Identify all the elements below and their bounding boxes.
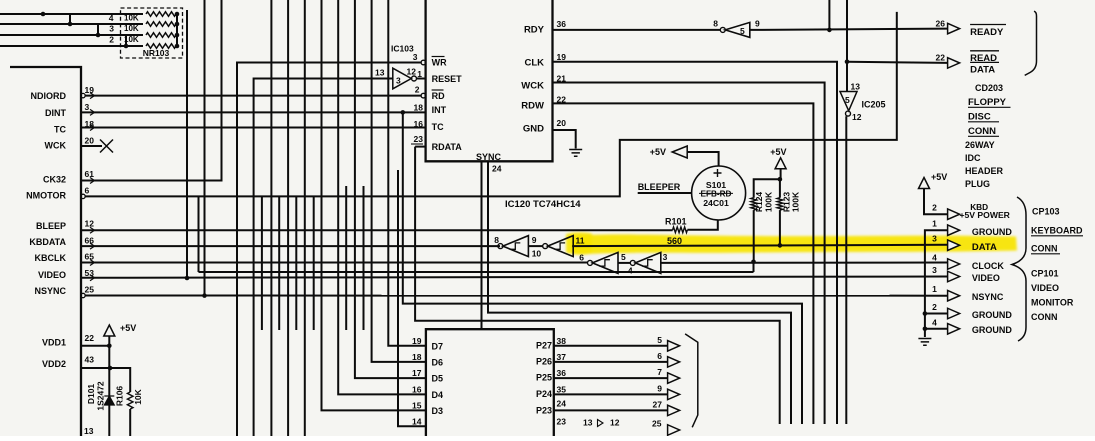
bus vertical K (x314) bbox=[313, 196, 315, 330]
bus vertical to D6 bbox=[372, 0, 426, 362]
bracket CP103 bbox=[1012, 197, 1026, 341]
svg-text:BLEEPER: BLEEPER bbox=[638, 182, 681, 192]
wire READ DATA bbox=[847, 62, 948, 63]
wire +5V down bbox=[780, 169, 782, 179]
svg-text:R106: R106 bbox=[115, 386, 125, 407]
svg-text:+5V: +5V bbox=[650, 147, 666, 157]
svg-text:14: 14 bbox=[412, 416, 422, 426]
op-amp inverter gate 10/11 bbox=[543, 244, 548, 249]
svg-text:7: 7 bbox=[657, 367, 662, 377]
svg-text:24: 24 bbox=[492, 164, 502, 174]
ground symbol kbd/video bbox=[918, 339, 931, 346]
svg-text:CP101: CP101 bbox=[1031, 269, 1059, 279]
svg-text:23: 23 bbox=[557, 417, 567, 427]
bus vertical NMOTOR drop (x198) bbox=[198, 196, 200, 272]
svg-text:R101: R101 bbox=[665, 217, 687, 227]
svg-text:3: 3 bbox=[932, 265, 937, 275]
svg-text:CONN: CONN bbox=[1031, 244, 1058, 254]
svg-text:READY: READY bbox=[970, 27, 1004, 38]
wire VIDEO bbox=[81, 277, 948, 278]
wire WCK drop bbox=[553, 83, 825, 425]
node arrow bottom partial bbox=[668, 425, 680, 436]
svg-text:10K: 10K bbox=[124, 14, 139, 23]
resistor NR103 element d bbox=[146, 44, 176, 49]
wire R123 to DATA net bbox=[779, 210, 781, 245]
wire P27 out bbox=[554, 345, 668, 347]
wire VDD1 bbox=[81, 345, 109, 347]
wire CK32 bbox=[81, 0, 222, 181]
svg-text:12: 12 bbox=[852, 112, 862, 122]
pin arrow VIDEO bbox=[90, 275, 95, 281]
svg-text:6: 6 bbox=[657, 351, 662, 361]
node READ DATA arrow bbox=[948, 58, 960, 69]
bus vertical I (x296) bbox=[295, 196, 297, 330]
riser at x829 bbox=[828, 0, 830, 30]
svg-text:D7: D7 bbox=[432, 341, 444, 351]
bus vertical L (x346) bbox=[345, 186, 347, 330]
svg-text:13: 13 bbox=[375, 68, 385, 78]
pin arrow KBDATA bbox=[90, 243, 95, 249]
svg-text:HEADER: HEADER bbox=[965, 166, 1004, 176]
svg-text:24: 24 bbox=[557, 399, 567, 409]
bracket P2x bbox=[685, 334, 698, 427]
svg-text:10K: 10K bbox=[124, 24, 139, 33]
wire DINT to INT bbox=[81, 111, 426, 113]
svg-text:19: 19 bbox=[85, 85, 95, 95]
svg-text:6: 6 bbox=[579, 253, 584, 263]
svg-text:VDD1: VDD1 bbox=[42, 338, 66, 348]
svg-text:VIDEO: VIDEO bbox=[38, 270, 66, 280]
svg-text:RD: RD bbox=[432, 91, 445, 101]
node READY arrow bbox=[948, 23, 960, 33]
pin arrow CK32 bbox=[90, 178, 95, 184]
junction dot VDD1 bbox=[107, 344, 112, 349]
svg-text:22: 22 bbox=[936, 53, 946, 63]
wire KBDATA (to inverter 8) bbox=[81, 245, 500, 247]
svg-text:20: 20 bbox=[85, 136, 95, 146]
wire R101 to circle bbox=[687, 220, 717, 230]
wire between gates bbox=[528, 245, 542, 247]
node pin3 DATA arrow bbox=[948, 240, 960, 251]
svg-text:3: 3 bbox=[85, 102, 90, 112]
tiny gate 13-12 bbox=[598, 420, 604, 427]
bus vertical to D5 bbox=[355, 0, 426, 378]
wire DATA net bbox=[572, 245, 947, 246]
svg-text:25: 25 bbox=[85, 285, 95, 295]
svg-text:23: 23 bbox=[414, 134, 424, 144]
svg-text:R124: R124 bbox=[754, 192, 764, 213]
svg-text:66: 66 bbox=[85, 236, 95, 246]
svg-text:KEYBOARD: KEYBOARD bbox=[1031, 226, 1083, 236]
svg-text:P24: P24 bbox=[536, 389, 552, 399]
wire BLEEPER underline lead bbox=[638, 192, 692, 194]
svg-text:5: 5 bbox=[657, 335, 662, 345]
svg-text:38: 38 bbox=[557, 336, 567, 346]
svg-text:9: 9 bbox=[755, 19, 760, 29]
svg-text:CD203: CD203 bbox=[975, 83, 1003, 93]
svg-text:IC103: IC103 bbox=[391, 44, 414, 54]
svg-text:3: 3 bbox=[396, 76, 401, 86]
wire WCK stub bbox=[81, 145, 102, 147]
svg-text:GROUND: GROUND bbox=[972, 310, 1012, 320]
svg-text:MONITOR: MONITOR bbox=[1031, 298, 1074, 308]
pin bubble NSYNC bbox=[81, 293, 85, 297]
pin arrow BLEEP bbox=[90, 227, 95, 233]
wire R124 to CLOCK net bbox=[753, 210, 755, 261]
node pin1 arrow bbox=[948, 225, 960, 236]
svg-text:12: 12 bbox=[85, 219, 95, 229]
node arrow P26 bbox=[668, 357, 680, 368]
wire mid horizontal bbox=[199, 271, 754, 273]
svg-text:PLUG: PLUG bbox=[965, 179, 990, 189]
svg-text:13: 13 bbox=[851, 82, 861, 92]
svg-text:10: 10 bbox=[532, 249, 542, 259]
svg-text:IC205: IC205 bbox=[862, 100, 886, 110]
node pin4 CLOCK arrow bbox=[948, 259, 960, 270]
junction dot on line 3 bbox=[96, 33, 101, 38]
svg-text:3: 3 bbox=[932, 234, 937, 244]
op-amp inverter gate 8/9 bbox=[498, 244, 503, 249]
svg-text:D101: D101 bbox=[86, 384, 96, 405]
svg-text:CONN: CONN bbox=[968, 126, 996, 137]
transistor-like gate IC205 inverter bbox=[840, 92, 857, 111]
wire RDATA stub bbox=[415, 146, 426, 148]
svg-text:61: 61 bbox=[85, 169, 95, 179]
node arrow P24 bbox=[668, 389, 680, 400]
wire P24 out bbox=[554, 393, 668, 395]
svg-text:1S2472: 1S2472 bbox=[96, 381, 106, 411]
svg-text:5: 5 bbox=[621, 252, 626, 262]
svg-text:RESET: RESET bbox=[432, 74, 463, 84]
svg-text:DINT: DINT bbox=[45, 108, 66, 118]
svg-text:NSYNC: NSYNC bbox=[34, 286, 66, 296]
node pin4 GROUND arrow bbox=[948, 324, 960, 335]
svg-text:3: 3 bbox=[413, 52, 418, 62]
svg-text:GROUND: GROUND bbox=[972, 227, 1012, 237]
svg-text:INT: INT bbox=[432, 105, 447, 115]
op-amp inverter gate 6/5 bbox=[588, 260, 593, 265]
node arrow P23 bbox=[668, 405, 680, 416]
svg-text:43: 43 bbox=[85, 355, 95, 365]
junction dot gnd2 bbox=[923, 311, 928, 316]
svg-text:18: 18 bbox=[412, 352, 422, 362]
svg-text:CLK: CLK bbox=[524, 58, 544, 69]
op-amp inverter gate 5 (RDY) bbox=[720, 27, 725, 32]
plus mark S101 bbox=[714, 169, 722, 177]
op-amp inverter gate 4/3 bbox=[630, 260, 635, 265]
wire R106 branch bbox=[111, 368, 131, 392]
svg-text:9: 9 bbox=[532, 235, 537, 245]
svg-text:NSYNC: NSYNC bbox=[972, 292, 1004, 302]
+5V left-triangle bleeper bbox=[672, 146, 687, 158]
+5V triangle kbd bbox=[919, 178, 930, 189]
node pin2 arrow bbox=[948, 209, 960, 220]
svg-text:15: 15 bbox=[412, 400, 422, 410]
junction dot READ DATA bbox=[845, 59, 850, 64]
wire NMOTOR boundary run bbox=[85, 12, 897, 197]
IC middle outline bbox=[426, 0, 553, 161]
wire bus line 3 (to NR103 row 2) bbox=[0, 34, 143, 36]
dot rail row4 bbox=[175, 12, 180, 17]
svg-text:VIDEO: VIDEO bbox=[1031, 283, 1059, 293]
junction dot VIDEO x187 bbox=[185, 276, 190, 281]
svg-text:GND: GND bbox=[523, 124, 544, 135]
wire gate to RESET pin bbox=[417, 78, 426, 80]
bracket floppy bbox=[1025, 11, 1037, 75]
common rail of NR103 bbox=[176, 14, 178, 46]
svg-text:+5V: +5V bbox=[120, 323, 136, 333]
dashed box NR103 bbox=[121, 8, 183, 58]
wire IC bottom stub bbox=[481, 161, 483, 329]
svg-text:VDD2: VDD2 bbox=[42, 359, 66, 369]
bus vertical M (x363) bbox=[363, 186, 365, 330]
node arrow P27 bbox=[668, 341, 680, 352]
+5V symbol VDD bbox=[104, 325, 115, 336]
svg-text:26: 26 bbox=[936, 19, 946, 29]
pin bubble NDIORD bbox=[81, 93, 85, 97]
wire KBCLK (to inverter 6) bbox=[81, 262, 588, 264]
wire VDD2 bbox=[81, 367, 111, 369]
wire WR input riser bbox=[237, 63, 421, 437]
wire NSYNC bbox=[85, 295, 948, 297]
bus vertical to D3 bbox=[322, 0, 426, 410]
bus vertical E (x262) bbox=[261, 196, 263, 330]
svg-text:36: 36 bbox=[557, 19, 567, 29]
wire P25 out bbox=[554, 377, 668, 379]
svg-text:P27: P27 bbox=[536, 341, 552, 351]
junction dot +5V node bbox=[778, 177, 783, 182]
svg-text:10K: 10K bbox=[133, 388, 143, 404]
svg-text:18: 18 bbox=[414, 103, 424, 113]
ground symbol GND pin20 bbox=[569, 150, 582, 157]
svg-text:17: 17 bbox=[412, 368, 422, 378]
svg-text:CONN: CONN bbox=[1031, 312, 1058, 322]
svg-text:+5V POWER: +5V POWER bbox=[960, 210, 1011, 220]
wire R123 down bbox=[779, 179, 781, 198]
stub line2-line3 bbox=[97, 24, 99, 35]
svg-text:+5V: +5V bbox=[770, 147, 786, 157]
pin arrow KBCLK bbox=[90, 260, 95, 266]
resistor R124 bbox=[751, 198, 757, 210]
svg-text:SYNC: SYNC bbox=[476, 152, 502, 162]
svg-text:TC: TC bbox=[54, 125, 66, 135]
junction dot VDD2 bbox=[108, 366, 113, 371]
svg-text:9: 9 bbox=[657, 383, 662, 393]
pin bubble RD bbox=[421, 93, 426, 98]
resistor R123 bbox=[777, 198, 783, 210]
buzzer S101 circle bbox=[692, 166, 746, 220]
svg-text:19: 19 bbox=[557, 52, 567, 62]
wire R106 bottom bbox=[129, 409, 131, 436]
svg-text:65: 65 bbox=[85, 252, 95, 262]
wire between gates 2 bbox=[618, 262, 631, 264]
junction dot R123-DATA bbox=[778, 243, 783, 248]
svg-text:3: 3 bbox=[109, 24, 114, 34]
IC205 input riser bbox=[846, 0, 848, 92]
svg-text:2: 2 bbox=[932, 302, 937, 312]
svg-text:WR: WR bbox=[432, 58, 447, 68]
highlight DATA net (yellow marker) bbox=[566, 232, 1017, 254]
junction dot INT wire bbox=[401, 110, 406, 115]
stub R124 node to mid wire bbox=[753, 262, 755, 273]
junction dot gnd4 bbox=[923, 327, 928, 332]
svg-text:560: 560 bbox=[667, 236, 682, 246]
resistor NR103 element c bbox=[146, 33, 176, 38]
no-connect X on WCK bbox=[100, 140, 113, 153]
resistor NR103 element b bbox=[146, 22, 176, 27]
junction dot on line 1 bbox=[41, 12, 46, 17]
stub line1-line2 bbox=[69, 14, 71, 24]
wire +5V to bleeper bbox=[688, 152, 719, 166]
+5V triangle R123 bbox=[775, 158, 786, 169]
svg-text:8: 8 bbox=[494, 235, 499, 245]
svg-text:CK32: CK32 bbox=[43, 175, 66, 185]
svg-text:CLOCK: CLOCK bbox=[972, 261, 1004, 271]
node pin3 VIDEO arrow bbox=[948, 271, 960, 282]
svg-text:16: 16 bbox=[414, 119, 424, 129]
wire IC205 output drop bbox=[845, 116, 847, 424]
wire bus line 4 (to NR103 row 1) bbox=[0, 45, 143, 47]
dot rail row3 bbox=[175, 22, 180, 27]
wire +5V to pin2 bbox=[924, 189, 948, 215]
svg-text:1: 1 bbox=[932, 219, 937, 229]
svg-text:13: 13 bbox=[84, 426, 94, 436]
svg-text:20: 20 bbox=[557, 118, 567, 128]
svg-text:WCK: WCK bbox=[45, 141, 67, 151]
svg-text:36: 36 bbox=[557, 368, 567, 378]
pin arrow NDIORD bbox=[90, 93, 95, 99]
svg-text:25: 25 bbox=[652, 419, 662, 429]
svg-text:NMOTOR: NMOTOR bbox=[26, 191, 66, 201]
junction dot R124-CLOCK bbox=[751, 260, 756, 265]
svg-text:5: 5 bbox=[740, 26, 745, 36]
wire pin2 gnd stub bbox=[925, 313, 948, 315]
svg-text:1: 1 bbox=[932, 284, 937, 294]
wire +5V node left bbox=[754, 179, 780, 198]
wire RDY to inverter bbox=[553, 29, 721, 31]
svg-text:IC120 TC74HC14: IC120 TC74HC14 bbox=[505, 199, 581, 210]
pin bubble WR bbox=[421, 60, 426, 65]
svg-text:4: 4 bbox=[628, 266, 633, 276]
bus vertical to pin14 bbox=[398, 170, 426, 426]
svg-text:10K: 10K bbox=[124, 35, 139, 44]
svg-text:D3: D3 bbox=[432, 406, 444, 416]
bus vertical to D7 bbox=[388, 0, 426, 346]
svg-text:+5V: +5V bbox=[931, 172, 947, 182]
vertical +5V to D101 bbox=[108, 336, 110, 436]
wire CLOCK net bbox=[661, 262, 948, 264]
svg-text:16: 16 bbox=[412, 384, 422, 394]
node pin1 NSYNC arrow bbox=[948, 290, 960, 301]
wire BLEEP bbox=[81, 229, 673, 231]
dot rail row2 bbox=[175, 33, 180, 38]
wire READY bbox=[750, 29, 948, 30]
svg-text:FLOPPY: FLOPPY bbox=[968, 97, 1007, 108]
node arrow P25 bbox=[668, 373, 680, 384]
svg-text:GROUND: GROUND bbox=[972, 325, 1012, 335]
svg-text:DATA: DATA bbox=[972, 242, 997, 253]
svg-text:24C01: 24C01 bbox=[703, 198, 729, 208]
svg-text:4: 4 bbox=[932, 318, 937, 328]
pin arrow DINT bbox=[90, 109, 95, 115]
junction dot on line 4 bbox=[124, 44, 129, 49]
resistor R101 bbox=[673, 227, 688, 233]
svg-text:100K: 100K bbox=[764, 191, 774, 212]
svg-text:2: 2 bbox=[932, 203, 937, 213]
svg-text:100K: 100K bbox=[791, 191, 801, 212]
svg-text:NR103: NR103 bbox=[143, 48, 170, 58]
wire R101 left is BLEEP wire bbox=[672, 229, 674, 232]
svg-text:RDY: RDY bbox=[524, 25, 545, 36]
svg-text:2: 2 bbox=[109, 35, 114, 45]
svg-text:RDW: RDW bbox=[521, 101, 544, 112]
svg-text:WCK: WCK bbox=[521, 81, 544, 92]
svg-text:P25: P25 bbox=[536, 373, 552, 383]
IC bottom outline bbox=[426, 329, 554, 436]
op-amp U-inverter IC103 gate 3 bbox=[393, 68, 412, 89]
svg-text:VIDEO: VIDEO bbox=[972, 273, 1000, 283]
svg-text:TC: TC bbox=[432, 122, 444, 132]
wire GND pin20 bbox=[553, 130, 576, 149]
svg-text:4: 4 bbox=[109, 13, 114, 23]
svg-text:P26: P26 bbox=[536, 357, 552, 367]
svg-text:KBCLK: KBCLK bbox=[35, 253, 67, 263]
wire SYNC exit W2 bbox=[488, 161, 791, 424]
wire CLK drop bbox=[553, 62, 838, 424]
svg-text:4: 4 bbox=[932, 253, 937, 263]
svg-text:DISC: DISC bbox=[968, 112, 991, 123]
svg-text:NDIORD: NDIORD bbox=[31, 91, 67, 101]
bus vertical to D4 bbox=[338, 0, 426, 394]
svg-text:13: 13 bbox=[583, 418, 593, 428]
wire RESET gate input riser bbox=[254, 79, 393, 437]
node pin2 GROUND arrow bbox=[948, 308, 960, 319]
svg-text:P23: P23 bbox=[536, 406, 552, 416]
svg-text:BLEEP: BLEEP bbox=[36, 221, 66, 231]
resistor NR103 element a bbox=[146, 12, 176, 17]
wire exit W1 bbox=[403, 112, 802, 424]
stub line3-line4 bbox=[125, 35, 127, 46]
svg-text:RDATA: RDATA bbox=[432, 142, 463, 152]
svg-text:D6: D6 bbox=[432, 357, 444, 367]
wire NDIORD to RD bbox=[85, 95, 421, 97]
svg-text:DATA: DATA bbox=[970, 64, 995, 75]
junction dot NSYNC x204 bbox=[202, 293, 207, 298]
svg-text:26WAY: 26WAY bbox=[965, 140, 995, 150]
svg-text:27: 27 bbox=[653, 399, 663, 409]
wire P26 out bbox=[554, 361, 668, 363]
svg-text:KBDATA: KBDATA bbox=[29, 237, 66, 247]
svg-text:12: 12 bbox=[407, 67, 417, 77]
resistor R106 bbox=[127, 392, 133, 409]
svg-text:S101: S101 bbox=[706, 180, 726, 190]
wire TC to TC bbox=[81, 127, 426, 129]
bus vertical A (x187) bbox=[186, 10, 188, 278]
wire pin4 gnd stub bbox=[925, 328, 948, 330]
wire P23 out bbox=[554, 409, 668, 411]
wire pin1 ground bbox=[925, 230, 948, 337]
svg-text:12: 12 bbox=[610, 418, 620, 428]
wire RDW drop bbox=[553, 103, 814, 424]
svg-text:37: 37 bbox=[557, 352, 567, 362]
svg-text:11: 11 bbox=[576, 236, 585, 246]
svg-text:22: 22 bbox=[85, 333, 95, 343]
bus vertical B (x204) bbox=[204, 0, 206, 296]
junction dot on line 2 bbox=[68, 22, 73, 27]
svg-text:6: 6 bbox=[85, 186, 90, 196]
wire bus line 2 (to NR103 row 3) bbox=[0, 23, 143, 25]
svg-text:IDC: IDC bbox=[965, 153, 981, 163]
